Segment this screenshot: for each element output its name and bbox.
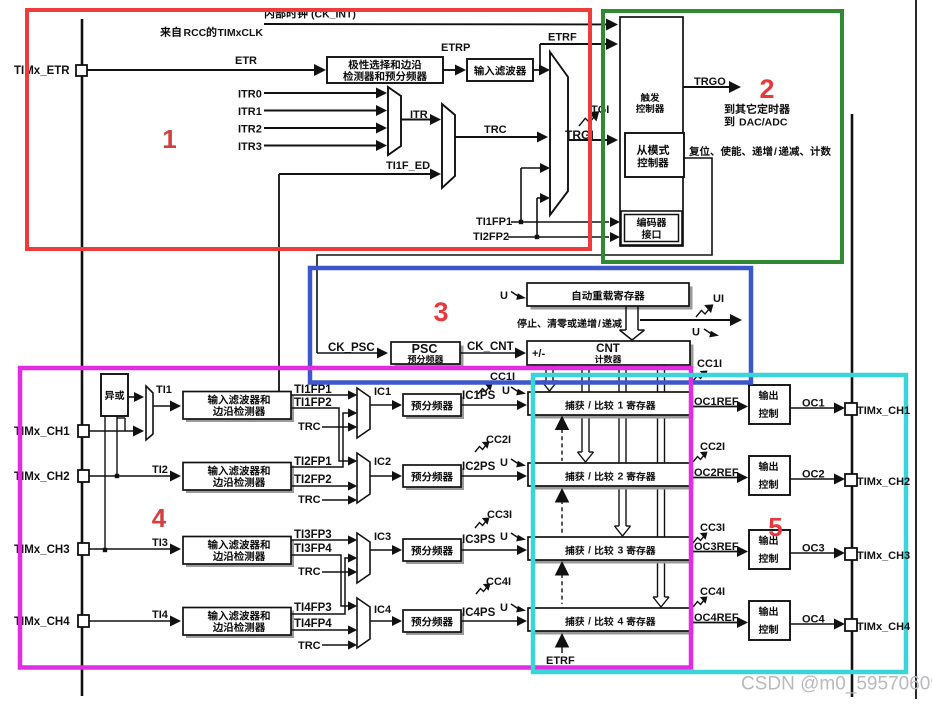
svg-text:TIMx_CH3: TIMx_CH3 [857,550,910,562]
svg-text:ITR3: ITR3 [238,141,262,153]
svg-text:TRC: TRC [298,494,321,506]
svg-text:TI3: TI3 [152,537,168,549]
svg-text:ITR1: ITR1 [238,106,262,118]
svg-text:5: 5 [768,512,782,542]
svg-text:TI1FP1: TI1FP1 [476,216,512,228]
svg-text:TRGO: TRGO [694,76,726,88]
svg-text:/: / [588,401,591,412]
svg-text:/: / [588,472,591,483]
svg-text:TI4FP4: TI4FP4 [294,618,332,630]
svg-text:U: U [502,385,510,397]
svg-text:IC2: IC2 [374,456,391,468]
svg-text:2: 2 [618,471,624,483]
svg-text:TI3FP3: TI3FP3 [294,529,332,541]
svg-text:4: 4 [152,503,167,533]
svg-text:ITR0: ITR0 [238,88,262,100]
svg-text:TI1FP1: TI1FP1 [294,384,332,396]
svg-text:IC4PS: IC4PS [462,607,496,619]
svg-text:TI4: TI4 [152,609,169,621]
svg-text:U: U [500,531,508,543]
svg-text:3: 3 [618,545,624,557]
svg-text:ETRP: ETRP [441,42,470,54]
svg-text:TRC: TRC [298,421,321,433]
svg-text:/: / [588,546,591,557]
svg-text:DAC/ADC: DAC/ADC [739,117,788,129]
svg-text:TIMx_CH1: TIMx_CH1 [14,426,70,438]
svg-text:TI2FP1: TI2FP1 [294,456,332,468]
svg-text:/: / [588,617,591,628]
svg-text:IC3: IC3 [374,531,391,543]
svg-text:1: 1 [162,124,176,154]
svg-text:TI2FP2: TI2FP2 [294,474,332,486]
svg-text:U: U [500,602,508,614]
svg-text:TI2: TI2 [152,464,168,476]
svg-text:CC4I: CC4I [700,586,725,598]
svg-text:ITR2: ITR2 [238,123,262,135]
svg-text:IC1: IC1 [374,386,391,398]
svg-text:/: / [598,319,601,330]
svg-text:TIMx_CH2: TIMx_CH2 [14,471,70,483]
svg-text:U: U [500,290,508,302]
svg-text:+/-: +/- [532,348,545,360]
svg-text:TIMxCLK: TIMxCLK [218,27,264,39]
svg-text:4: 4 [618,616,624,628]
svg-text:PSC: PSC [412,342,438,356]
svg-text:U: U [692,327,700,339]
svg-text:TI1FP2: TI1FP2 [294,397,332,409]
svg-text:CC3I: CC3I [700,522,725,534]
svg-text:CK_PSC: CK_PSC [328,342,375,354]
svg-text:IC3PS: IC3PS [462,534,496,546]
svg-text:TIMx_ETR: TIMx_ETR [14,65,70,77]
svg-text:IC1PS: IC1PS [462,390,496,402]
svg-text:U: U [500,457,508,469]
svg-text:TIMx_CH4: TIMx_CH4 [14,616,70,628]
svg-text:TIMx_CH1: TIMx_CH1 [857,405,910,417]
svg-text:TI1: TI1 [156,384,172,396]
svg-text:TIMx_CH2: TIMx_CH2 [857,476,910,488]
svg-text:CK_CNT: CK_CNT [467,341,514,353]
svg-text:CC2I: CC2I [486,434,511,446]
svg-text:TIMx_CH4: TIMx_CH4 [857,621,911,633]
svg-text:CC2I: CC2I [700,441,725,453]
svg-text:TI4FP3: TI4FP3 [294,602,332,614]
svg-text:UI: UI [713,293,724,305]
svg-text:TI2FP2: TI2FP2 [473,231,509,243]
svg-text:TRC: TRC [298,640,321,652]
svg-text:CC1I: CC1I [697,358,722,370]
svg-text:RCC: RCC [184,27,207,39]
svg-text:IC2PS: IC2PS [462,461,496,473]
svg-text:ETR: ETR [235,55,257,67]
svg-text:CC3I: CC3I [487,509,512,521]
svg-text:CSDN @m0_59570609: CSDN @m0_59570609 [741,674,932,695]
svg-text:TIMx_CH3: TIMx_CH3 [14,544,70,556]
svg-text:TRC: TRC [298,566,321,578]
svg-text:TI1F_ED: TI1F_ED [386,160,430,172]
svg-text:IC4: IC4 [374,604,392,616]
svg-text:TRC: TRC [484,124,507,136]
svg-text:/: / [774,146,777,158]
svg-text:TI3FP4: TI3FP4 [294,543,332,555]
svg-text:2: 2 [759,74,774,104]
svg-text:3: 3 [433,297,448,327]
svg-text:CNT: CNT [596,343,620,355]
svg-text:ETRF: ETRF [548,32,577,44]
svg-text:ETRF: ETRF [546,655,575,667]
svg-text:1: 1 [618,400,624,412]
